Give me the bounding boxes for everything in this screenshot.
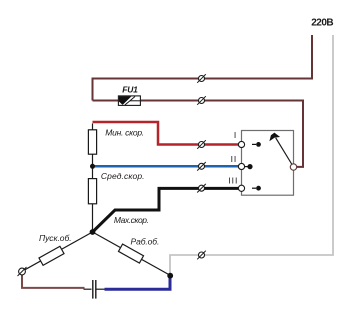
svg-text:I: I <box>234 130 237 140</box>
connector X1 on top phase wire <box>197 74 206 83</box>
wire: maximum speed tap (black) from node to switch contact III <box>93 188 240 232</box>
switch SA1 enclosure box <box>242 131 294 196</box>
wire: capacitor left lead <box>84 288 92 290</box>
svg-text:Мах.скор.: Мах.скор. <box>114 215 149 225</box>
connector X6 on gray neutral wire <box>197 251 206 260</box>
wire: winding chain vertical <box>92 124 94 233</box>
switch SA1 contact dot II <box>245 164 253 169</box>
svg-text:Мин. скор.: Мин. скор. <box>105 127 144 137</box>
node: junction of blue tap on winding chain <box>90 164 95 169</box>
winding section: medium speed (rectangle symbol) <box>88 179 96 204</box>
start winding (rotated rectangle symbol) Пуск.об. <box>39 246 64 265</box>
wire: run-winding branch diagonal <box>93 232 171 276</box>
svg-text:Пуск.об.: Пуск.об. <box>39 233 72 243</box>
connector X5 on black wire <box>197 184 206 193</box>
switch SA1 contact dot I <box>252 142 261 147</box>
svg-text:Раб.об.: Раб.об. <box>131 236 160 246</box>
switch SA1 rotor arm with arrowhead <box>269 133 293 167</box>
wire: medium speed tap (blue) to switch contact II <box>93 165 239 168</box>
run winding (rotated rectangle symbol) Раб.об. <box>118 244 143 263</box>
connector X4 on blue wire <box>197 162 206 171</box>
switch SA1 terminal I (circle) <box>238 141 244 147</box>
switch SA1 contact dot III <box>252 186 261 191</box>
svg-text:220В: 220В <box>311 18 333 29</box>
svg-text:III: III <box>228 176 238 186</box>
svg-text:Сред.скор.: Сред.скор. <box>101 171 145 181</box>
node: common motor star point <box>90 229 96 235</box>
wire: capacitor to run-winding junction (navy blue) <box>105 276 171 289</box>
wire: capacitor right lead <box>96 288 105 290</box>
svg-text:II: II <box>231 154 238 164</box>
svg-text:FU1: FU1 <box>122 85 138 95</box>
switch SA1 terminal III (circle) <box>238 185 244 191</box>
wire: minimum speed tap (red) to switch contact I <box>93 122 240 145</box>
wire: fuse output line to switch common (maroon) <box>93 101 304 167</box>
node: run winding / capacitor / neutral junction <box>167 273 173 279</box>
connector X3 on red wire <box>197 140 206 149</box>
connector X2 on fuse wire <box>197 96 206 105</box>
winding section: minimum speed (rectangle symbol) <box>88 130 96 154</box>
switch SA1 terminal II (circle) <box>238 163 244 169</box>
wire: 220V phase (maroon) down, across top, down-left to fuse line <box>93 35 313 101</box>
wire: start winding to capacitor (maroon) <box>22 275 85 288</box>
wire: 220V neutral (gray) down right side and along bottom to run-winding node <box>170 35 333 276</box>
wire: start-winding branch diagonal <box>23 232 93 271</box>
fuse FU1 <box>118 96 140 106</box>
connector X7 at start winding end <box>18 267 27 276</box>
capacitor C1 plates <box>93 280 96 299</box>
switch SA1 common terminal (circle) <box>290 164 296 170</box>
